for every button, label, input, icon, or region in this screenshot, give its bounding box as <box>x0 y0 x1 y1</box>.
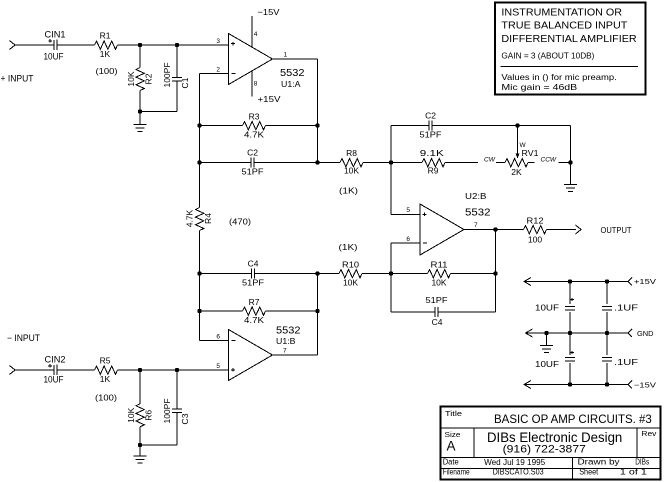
wire left rail lower <box>199 231 201 341</box>
svg-text:GAIN = 3 (ABOUT 10DB): GAIN = 3 (ABOUT 10DB) <box>501 52 594 61</box>
wire <box>176 81 178 112</box>
svg-text:Wed Jul 19 1995: Wed Jul 19 1995 <box>484 458 546 467</box>
svg-text:4.7K: 4.7K <box>185 209 195 227</box>
node junction <box>605 382 609 386</box>
svg-text:Date: Date <box>443 458 459 467</box>
svg-text:Rev: Rev <box>641 429 656 438</box>
wire <box>266 125 318 127</box>
ground <box>139 445 141 456</box>
svg-text:C1: C1 <box>180 77 190 88</box>
wire <box>318 273 340 275</box>
-15V rail connector <box>628 381 632 389</box>
wire pin 6 stub <box>200 340 229 342</box>
svg-text:DIFFERENTIAL AMPLIFIER: DIFFERENTIAL AMPLIFIER <box>501 34 636 45</box>
resistor R11 10K <box>428 270 451 278</box>
svg-text:Sheet: Sheet <box>579 468 599 477</box>
svg-text:1: 1 <box>284 52 288 59</box>
wire +15V rail <box>524 281 628 283</box>
svg-text:6: 6 <box>216 334 220 341</box>
wire <box>176 413 178 446</box>
capacitor .1UF bypass (+15V) <box>602 305 612 307</box>
wire <box>139 45 141 68</box>
wire <box>139 91 141 112</box>
wire <box>15 369 54 371</box>
svg-text:(100): (100) <box>95 393 117 403</box>
input port - INPUT connector <box>10 366 16 375</box>
svg-text:7: 7 <box>474 222 478 229</box>
capacitor CIN1 10UF (polarized) <box>53 40 55 50</box>
wire -15V rail <box>524 384 628 386</box>
svg-text:(1K): (1K) <box>339 242 358 252</box>
svg-text:9.1K: 9.1K <box>420 148 444 158</box>
svg-text:C2: C2 <box>425 111 436 121</box>
node junction C4 right <box>315 271 319 275</box>
svg-text:C4: C4 <box>248 259 259 269</box>
svg-text:C2: C2 <box>247 148 258 158</box>
svg-text:CIN1: CIN1 <box>45 30 66 40</box>
op-amp U1:A 5532 <box>229 34 273 85</box>
wire output pin 1 <box>273 58 318 60</box>
wire left rail upper <box>199 74 201 208</box>
pin 8 power wire to +15V <box>251 71 253 96</box>
svg-text:100PF: 100PF <box>162 398 172 423</box>
node junction C4 left <box>197 271 201 275</box>
svg-text:+15V: +15V <box>634 277 656 286</box>
node junction gnd tap <box>544 331 548 335</box>
svg-text:Title: Title <box>445 409 462 418</box>
svg-text:4.7K: 4.7K <box>244 130 264 140</box>
capacitor C3 100PF (vertical) <box>172 408 182 410</box>
node A junction R8/R9/C2/pin5 <box>389 160 393 164</box>
node junction <box>568 331 572 335</box>
wire <box>118 369 229 371</box>
capacitor C4 51PF <box>251 269 253 279</box>
wire U1:A output rail <box>317 59 319 163</box>
wire <box>57 44 95 46</box>
wire <box>496 229 524 231</box>
ground <box>139 112 141 125</box>
resistor R3 4.7K <box>243 122 266 130</box>
svg-text:GND: GND <box>637 329 654 338</box>
svg-text:R3: R3 <box>249 112 260 122</box>
node junction RV1 CCW / ground <box>568 160 572 164</box>
wire <box>200 310 243 312</box>
wire <box>569 333 571 355</box>
svg-text:10UF: 10UF <box>535 359 559 369</box>
svg-text:Filename: Filename <box>443 468 470 477</box>
wire <box>547 229 577 231</box>
node junction R6/C3 bottom <box>138 443 142 447</box>
capacitor C4 51PF (U2:B fb) <box>434 307 436 317</box>
pin 4 power wire to -15V <box>251 16 253 47</box>
wire <box>140 444 177 446</box>
node junction R11 right <box>493 271 497 275</box>
output port arrow <box>576 225 582 234</box>
wire <box>363 162 391 164</box>
wire <box>200 273 252 275</box>
-15V rail left arrow <box>524 381 531 389</box>
wire <box>254 162 318 164</box>
svg-text:4: 4 <box>254 31 258 38</box>
wire <box>451 273 496 275</box>
svg-text:R10: R10 <box>342 260 359 270</box>
wire <box>15 44 54 46</box>
svg-text:10K: 10K <box>344 166 359 176</box>
input port + INPUT connector <box>10 41 16 50</box>
svg-text:2: 2 <box>216 67 220 74</box>
svg-text:R8: R8 <box>346 148 357 158</box>
svg-text:8: 8 <box>254 81 258 88</box>
wire <box>559 162 571 164</box>
svg-text:− INPUT: − INPUT <box>7 333 40 343</box>
wire node B vertical <box>390 243 392 312</box>
wire <box>445 162 478 164</box>
wire <box>606 282 608 305</box>
wire <box>362 273 391 275</box>
resistor R9 9.1K <box>422 159 445 167</box>
wire <box>496 162 505 164</box>
svg-text:6: 6 <box>406 236 410 243</box>
svg-text:1K: 1K <box>100 374 111 384</box>
resistor R6 10K (vertical) <box>136 404 144 427</box>
potentiometer RV1 2K <box>505 159 528 167</box>
svg-text:10UF: 10UF <box>44 375 64 385</box>
svg-text:51PF: 51PF <box>426 295 448 305</box>
svg-text:INSTRUMENTATION OR: INSTRUMENTATION OR <box>501 7 622 18</box>
wire <box>391 125 429 127</box>
node junction wiper top <box>515 123 519 127</box>
resistor R4 4.7K (vertical) <box>196 208 204 231</box>
svg-text:Mic gain = 46dB: Mic gain = 46dB <box>501 83 577 92</box>
wire pin 5 stub U2:B <box>391 214 420 216</box>
wire output pin 7 <box>273 354 318 356</box>
svg-text:+15V: +15V <box>258 94 281 104</box>
svg-text:(916) 722-3877: (916) 722-3877 <box>503 443 586 455</box>
ground <box>546 333 548 346</box>
wire GND rail <box>526 332 629 334</box>
node junction R1/R2 <box>138 43 142 47</box>
svg-text:.1UF: .1UF <box>614 357 638 367</box>
title block frame and dividers <box>441 407 661 480</box>
+15V rail connector <box>628 278 632 286</box>
svg-text:C4: C4 <box>432 317 443 327</box>
svg-text:100PF: 100PF <box>162 62 172 87</box>
svg-text:10K: 10K <box>126 71 136 86</box>
svg-text:4.7K: 4.7K <box>244 315 264 325</box>
wire <box>570 126 572 163</box>
svg-text:10UF: 10UF <box>44 52 64 62</box>
svg-text:2K: 2K <box>511 167 522 177</box>
svg-text:+ INPUT: + INPUT <box>1 74 34 84</box>
svg-text:R9: R9 <box>428 166 439 176</box>
svg-text:10UF: 10UF <box>535 303 559 313</box>
svg-text:R5: R5 <box>100 356 111 366</box>
svg-text:−15V: −15V <box>634 381 656 390</box>
resistor R5 1K <box>95 366 118 374</box>
svg-text:R11: R11 <box>431 260 448 270</box>
svg-text:C3: C3 <box>180 413 190 424</box>
node junction <box>605 331 609 335</box>
svg-text:A: A <box>447 439 456 454</box>
svg-text:10K: 10K <box>126 407 136 422</box>
svg-text:OUTPUT: OUTPUT <box>601 225 632 235</box>
svg-text:CIN2: CIN2 <box>45 355 66 365</box>
svg-text:5: 5 <box>406 207 410 214</box>
svg-text:.1UF: .1UF <box>614 303 638 313</box>
svg-text:51PF: 51PF <box>242 278 264 288</box>
node junction R3 left <box>197 123 201 127</box>
info box frame <box>495 3 646 95</box>
svg-text:R6: R6 <box>144 410 154 421</box>
wire <box>140 111 177 113</box>
node junction <box>568 279 572 283</box>
svg-text:BASIC OP AMP CIRCUITS. #3: BASIC OP AMP CIRCUITS. #3 <box>494 414 652 426</box>
wire <box>176 45 178 78</box>
node junction C2 left <box>197 160 201 164</box>
svg-text:TRUE BALANCED INPUT: TRUE BALANCED INPUT <box>501 20 628 31</box>
GND rail left arrow <box>526 329 533 337</box>
svg-text:7: 7 <box>283 348 287 355</box>
wire <box>438 311 496 313</box>
node B junction R10/R11 <box>389 271 393 275</box>
svg-text:100: 100 <box>528 235 542 245</box>
svg-text:−15V: −15V <box>258 7 280 17</box>
resistor R8 10K <box>340 159 363 167</box>
wire <box>569 363 571 385</box>
GND rail connector <box>628 329 632 337</box>
resistor R12 100 <box>524 226 547 234</box>
capacitor 10UF bypass (+15V, polarized) <box>565 305 575 307</box>
wire <box>176 370 178 409</box>
svg-text:CW: CW <box>484 157 496 164</box>
wire node A vertical <box>390 126 392 215</box>
wire <box>200 125 243 127</box>
capacitor .1UF bypass (-15V) <box>602 356 612 358</box>
wire <box>139 427 141 445</box>
svg-text:51PF: 51PF <box>420 130 442 140</box>
svg-text:Drawn by: Drawn by <box>578 458 620 467</box>
node junction output <box>493 227 497 231</box>
wire <box>606 333 608 355</box>
node junction R7 right <box>315 309 319 313</box>
capacitor 10UF bypass (-15V, polarized) <box>565 356 575 358</box>
node junction <box>605 279 609 283</box>
wire <box>391 311 435 313</box>
resistor R10 10K <box>339 270 362 278</box>
capacitor CIN2 10UF (polarized) <box>53 365 55 375</box>
wire <box>606 312 608 333</box>
capacitor C2 51PF (pot loop) <box>428 121 430 131</box>
svg-text:3: 3 <box>216 38 220 45</box>
node junction R5/R6 <box>138 368 142 372</box>
ground <box>570 163 572 185</box>
op-amp U1:B 5532 <box>229 330 273 381</box>
resistor R2 10K (vertical) <box>136 68 144 91</box>
node junction R7 left <box>197 309 201 313</box>
wire <box>57 369 95 371</box>
svg-text:5532: 5532 <box>465 208 491 219</box>
svg-text:R1: R1 <box>100 31 111 41</box>
svg-text:Values in () for mic preamp.: Values in () for mic preamp. <box>501 73 616 82</box>
wire pin 6 stub U2:B <box>391 242 420 244</box>
node junction <box>568 382 572 386</box>
svg-text:U1:B: U1:B <box>276 336 296 346</box>
wire <box>528 162 535 164</box>
svg-text:RV1: RV1 <box>522 148 539 158</box>
svg-text:10K: 10K <box>431 278 446 288</box>
node junction R3 right <box>315 123 319 127</box>
wire output pin 7 U2:B <box>464 229 496 231</box>
node junction C3 top <box>175 368 179 372</box>
resistor R1 1K <box>95 41 118 49</box>
svg-text:U1:A: U1:A <box>281 79 301 89</box>
svg-text:1 of 1: 1 of 1 <box>620 468 647 477</box>
svg-text:10K: 10K <box>343 278 358 288</box>
wire <box>318 162 341 164</box>
svg-text:5: 5 <box>216 363 220 370</box>
svg-text:51PF: 51PF <box>242 167 264 177</box>
wire <box>139 370 141 404</box>
capacitor C1 100PF (vertical) <box>172 77 182 79</box>
capacitor C2 51PF <box>250 158 252 168</box>
svg-text:R7: R7 <box>249 297 260 307</box>
wire U2:B feedback vertical <box>495 230 497 313</box>
svg-text:1K: 1K <box>100 49 111 59</box>
wire pin2 stub <box>200 73 229 75</box>
node junction C1 top <box>175 43 179 47</box>
resistor R7 4.7K <box>243 307 266 315</box>
wire <box>569 282 571 305</box>
wire <box>432 125 571 127</box>
svg-text:DIBSCATO.S03: DIBSCATO.S03 <box>493 468 544 477</box>
wire <box>569 312 571 333</box>
svg-text:5532: 5532 <box>280 68 305 79</box>
wire <box>118 44 229 46</box>
svg-text:DIBs: DIBs <box>635 458 649 467</box>
svg-text:R12: R12 <box>527 216 544 226</box>
wire <box>255 273 318 275</box>
node junction R2/C1 bottom <box>138 109 142 113</box>
wire <box>391 162 422 164</box>
svg-text:R4: R4 <box>203 213 213 224</box>
+15V rail left arrow <box>524 278 531 286</box>
svg-text:(470): (470) <box>229 217 251 227</box>
svg-text:(100): (100) <box>96 66 118 76</box>
svg-text:(1K): (1K) <box>339 186 358 196</box>
wire <box>200 162 252 164</box>
svg-text:CCW: CCW <box>541 157 557 164</box>
wire U1:B output rail <box>317 274 319 356</box>
wire <box>391 273 428 275</box>
svg-text:5532: 5532 <box>276 326 301 337</box>
svg-text:R2: R2 <box>144 73 154 84</box>
node junction C2 right <box>315 160 319 164</box>
op-amp U2:B 5532 <box>420 204 464 255</box>
info box divider line <box>501 65 638 67</box>
svg-text:U2:B: U2:B <box>465 191 487 201</box>
wire <box>606 363 608 385</box>
wire <box>266 310 318 312</box>
